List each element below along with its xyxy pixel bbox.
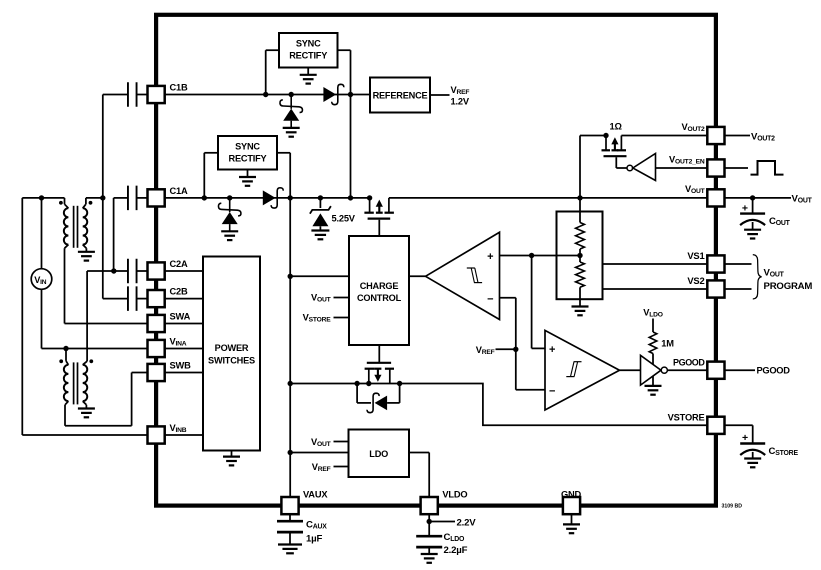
wire VS2 external — [725, 288, 752, 290]
pin VLDO — [421, 497, 438, 514]
sync rectify block 2 — [218, 136, 277, 170]
label VOUT charge-control input — [311, 293, 332, 304]
pin VOUT — [707, 189, 724, 206]
label VOUT ldo input — [311, 437, 332, 448]
ideal diode D2 — [263, 188, 283, 208]
pin GND — [563, 497, 580, 514]
label pin PGOOD ext-int — [673, 357, 705, 367]
svg-text:REFERENCE: REFERENCE — [373, 90, 428, 100]
ground CLDO — [421, 554, 438, 563]
pin C2A — [148, 262, 165, 279]
power MOSFET M3 VOUT2 switch 1ohm — [602, 133, 627, 156]
power MOSFET M1 charge pump — [364, 195, 394, 218]
node LDO input tap — [288, 450, 293, 455]
wire SWA pin to power switches — [164, 323, 204, 325]
node clamp left — [354, 381, 359, 386]
ground POWER SWITCHES — [223, 451, 240, 466]
ground COUT — [744, 230, 761, 239]
svg-text:1M: 1M — [661, 338, 674, 348]
label 1uF — [306, 533, 322, 544]
wire U2 output — [620, 369, 641, 371]
label pin SWB — [170, 361, 192, 371]
label pin GND — [561, 489, 582, 499]
svg-text:C2A: C2A — [170, 259, 188, 269]
capacitor CLDO — [416, 536, 442, 547]
wire SWB pin to power switches — [164, 372, 204, 374]
label CLDO — [444, 532, 466, 543]
wire sync1 left tap — [266, 50, 279, 94]
ground CSTORE — [744, 459, 761, 468]
wire COUT lead — [752, 198, 754, 214]
node VOUT2 branch — [577, 195, 582, 200]
capacitor C2B — [128, 286, 137, 311]
inverter U4 VOUT2 enable — [627, 154, 656, 181]
ground sync rectify 1 — [300, 68, 317, 84]
svg-text:RECTIFY: RECTIFY — [229, 153, 267, 163]
node VREF junction — [513, 347, 518, 352]
wire VOUT ldo stub — [334, 441, 349, 443]
transformer T2 core — [74, 362, 78, 404]
label 5.25V — [332, 214, 356, 224]
label 2.2V — [457, 517, 477, 528]
wire M3 right to VOUT2 pin — [621, 135, 707, 137]
ground T2 secondary — [78, 409, 95, 418]
wire C1A internal row — [164, 197, 370, 199]
capacitor C1B — [128, 82, 137, 107]
label VREF — [476, 345, 495, 356]
resistor R2 divider lower — [576, 262, 585, 287]
svg-text:GND: GND — [561, 489, 582, 499]
resistor 1M pullup — [649, 332, 657, 354]
svg-text:CHARGE: CHARGE — [360, 281, 399, 291]
label pin C2B — [170, 287, 188, 297]
pin VINA — [148, 340, 165, 357]
transformer T1 phase dot secondary — [89, 201, 93, 205]
wire VREF ldo stub — [334, 466, 349, 468]
wire LDO middle input — [290, 452, 348, 454]
node U1 plus crossover tap — [529, 253, 534, 258]
wire VSTORE cc stub — [334, 317, 350, 319]
label CSTORE — [769, 446, 799, 457]
label VOUT PROGRAM — [764, 267, 813, 292]
wire divider bottom — [579, 287, 581, 306]
transformer T2 primary winding — [64, 349, 69, 405]
wire sync2 right tap — [277, 153, 290, 198]
pin VOUT2 — [707, 127, 724, 144]
switch-diode SD2 to ground — [218, 195, 240, 240]
label PGOOD external — [757, 366, 791, 376]
capacitor CSTORE polarized — [740, 444, 765, 456]
wire VS1 external — [725, 263, 752, 265]
transformer T2 phase dot secondary — [89, 359, 93, 363]
node storage row tap — [288, 381, 293, 386]
label VOUT external — [792, 194, 813, 205]
comparator U2 power good — [545, 330, 620, 410]
label 1 ohm — [610, 122, 623, 132]
wire crossover to U2 plus — [532, 256, 545, 349]
svg-text:1µF: 1µF — [306, 533, 322, 544]
svg-text:2.2µF: 2.2µF — [444, 545, 468, 556]
svg-text:C1A: C1A — [170, 186, 188, 196]
label VSTORE charge-control input — [303, 313, 332, 324]
wire COUT to ground — [752, 222, 754, 230]
svg-text:LDO: LDO — [369, 449, 388, 459]
pin PGOOD — [707, 362, 724, 379]
pin VOUT2_EN — [707, 159, 724, 176]
wire CAUX to ground — [289, 532, 291, 544]
label plus CSTORE — [742, 432, 748, 444]
wire REFERENCE output — [430, 94, 450, 96]
resistor R1 divider upper — [576, 223, 585, 250]
block LDO — [349, 430, 410, 478]
node sync1 left tap — [263, 92, 268, 97]
wire vertical C1B/T1sec/C2B net — [102, 95, 104, 299]
wire T2 primary to SWB — [65, 373, 149, 426]
wire sync2 left tap — [204, 153, 218, 198]
svg-text:1Ω: 1Ω — [610, 122, 623, 132]
wire sync1 right tap — [338, 50, 351, 94]
wire VS2 stub — [603, 288, 708, 290]
node rectifier 2 output — [288, 195, 293, 200]
wire VIN to circle top — [41, 198, 43, 269]
node charge control input tap — [288, 274, 293, 279]
pin VS2 — [707, 280, 724, 297]
svg-text:C1B: C1B — [170, 83, 188, 93]
svg-text:RECTIFY: RECTIFY — [289, 51, 327, 61]
label pin C1B — [170, 83, 188, 93]
wire storage row — [290, 384, 707, 426]
inverter U3 PGOOD driver — [641, 355, 668, 385]
wire VINB pin to power switches — [164, 434, 204, 436]
pin C1B — [148, 86, 165, 103]
label VLDO pullup — [643, 308, 663, 319]
svg-text:−: − — [487, 293, 493, 305]
label pin VLDO — [442, 489, 467, 499]
svg-text:VLDO: VLDO — [442, 489, 467, 499]
wire VS1 stub — [603, 263, 708, 265]
wire outer loop to VINB — [22, 198, 148, 435]
label COUT — [769, 216, 791, 227]
svg-text:PGOOD: PGOOD — [673, 357, 705, 367]
label CAUX — [306, 520, 327, 531]
label 1M — [661, 338, 674, 348]
transformer T2 secondary winding — [83, 361, 88, 408]
svg-text:SWB: SWB — [170, 361, 192, 371]
label pin VINB — [170, 423, 187, 434]
wire VOUT2_EN external — [725, 167, 749, 169]
wire VSTORE external — [725, 425, 753, 443]
wire M3 gate — [616, 157, 627, 168]
wire C1B internal row — [164, 94, 371, 96]
block REFERENCE — [370, 78, 430, 113]
svg-text:+: + — [549, 344, 555, 356]
wire C2A row — [87, 270, 148, 272]
svg-text:+: + — [487, 251, 493, 263]
label pin C1A — [170, 186, 188, 196]
transformer T1 phase dot primary — [59, 201, 63, 205]
wire CLDO to ground — [428, 547, 430, 554]
IC body outline (LTC3109) — [156, 15, 716, 506]
ground GND pin — [563, 524, 580, 533]
label 3109 BD — [722, 504, 743, 510]
label pin VS2 — [687, 275, 704, 286]
label pin C2A — [170, 259, 188, 269]
node T2 primary tap — [63, 346, 68, 351]
wire M2 gate from charge control — [378, 345, 380, 362]
pin VSTORE — [707, 417, 724, 434]
wire VIN top rail — [22, 197, 64, 199]
svg-text:SWITCHES: SWITCHES — [208, 356, 255, 366]
label VREF ldo input — [312, 462, 331, 473]
brace VOUT PROGRAM — [753, 255, 762, 299]
wire vertical C2A net to T2 secondary — [86, 271, 88, 361]
svg-text:SWA: SWA — [170, 312, 191, 322]
svg-text:−: − — [549, 385, 555, 397]
block CHARGE CONTROL — [349, 236, 409, 345]
svg-text:2.2V: 2.2V — [457, 517, 477, 528]
label VOUT2 external — [751, 131, 775, 142]
pin VINB — [148, 426, 165, 443]
capacitor C1A — [128, 186, 137, 211]
svg-text:PGOOD: PGOOD — [757, 366, 791, 376]
wire C2A pin to power switches — [164, 270, 204, 272]
node VIN positive tap — [39, 195, 44, 200]
node sync2 left tap — [202, 195, 207, 200]
ideal diode D3 clamp — [357, 384, 400, 413]
label pin VOUT — [685, 184, 706, 195]
sync rectify block 1 — [279, 33, 338, 68]
pin VAUX — [281, 497, 298, 514]
wire 1M to driver — [652, 354, 654, 365]
wire 2.2V stub — [429, 521, 455, 523]
transformer T2 phase dot primary — [59, 359, 63, 363]
wire C1A row cap to pin — [114, 197, 149, 199]
wire C1B row cap to pin — [103, 94, 149, 96]
svg-text:VAUX: VAUX — [303, 489, 328, 499]
label pin VOUT2_EN — [669, 154, 705, 165]
transformer T1 secondary winding — [83, 198, 88, 252]
pin VS1 — [707, 255, 724, 272]
wire charge control output — [409, 275, 426, 277]
node C2A junction — [111, 268, 116, 273]
label pin VINA — [170, 337, 187, 348]
node divider mid tap — [577, 253, 582, 258]
label pin VSTORE — [668, 413, 705, 423]
wire VIN circle bottom to VINA rail — [42, 289, 67, 348]
node COUT tap — [750, 195, 755, 200]
waveform pulse VOUT2_EN — [751, 161, 784, 175]
ground sync rectify 2 — [239, 170, 256, 186]
wire VOUT cc stub — [334, 297, 350, 299]
svg-text:SYNC: SYNC — [235, 141, 260, 151]
wire VREF to comparators — [496, 348, 516, 350]
wire U1 plus input to divider tap — [500, 255, 581, 257]
wire C2B row — [103, 298, 149, 300]
ground CAUX — [278, 545, 302, 554]
label pin VOUT2 — [681, 122, 705, 133]
wire VINA row — [66, 348, 149, 350]
pin SWA — [148, 315, 165, 332]
wire T1 secondary top lead — [86, 197, 103, 199]
wire VOUT rail — [389, 197, 708, 199]
comparator U1 hysteretic — [426, 232, 500, 319]
wire VOUT2 external — [725, 135, 751, 137]
svg-text:PROGRAM: PROGRAM — [764, 281, 813, 292]
svg-text:VSTORE: VSTORE — [668, 413, 705, 423]
label pin VS1 — [687, 250, 704, 261]
svg-text:3109 BD: 3109 BD — [722, 504, 743, 510]
zener diode 5.25V — [310, 198, 331, 230]
svg-text:POWER: POWER — [215, 343, 249, 353]
label 2.2uF — [444, 545, 468, 556]
wire VOUT2_EN to inverter — [656, 167, 708, 169]
wire U1 minus input — [500, 298, 546, 390]
label plus COUT — [742, 202, 748, 214]
pin C1A — [148, 189, 165, 206]
node clamp right — [397, 381, 402, 386]
node vertical-join C1A row — [348, 195, 353, 200]
ideal diode D1 — [323, 84, 343, 104]
ground divider — [572, 307, 589, 316]
wire to charge control input — [290, 275, 349, 277]
capacitor COUT polarized — [740, 214, 765, 226]
label pin SWA — [170, 312, 191, 322]
wire VOUT2 branch up — [580, 136, 606, 198]
wire vertical rect1 out to C1A row — [350, 95, 352, 198]
wire C2B pin to power switches — [164, 298, 204, 300]
wire VINA pin to power switches — [164, 348, 204, 350]
transformer T1 core — [74, 206, 78, 248]
block POWER SWITCHES — [203, 257, 260, 451]
wire CSTORE to ground — [752, 452, 754, 458]
transformer T1 primary winding — [64, 198, 69, 248]
label VREF 1.2V — [451, 85, 470, 106]
pin SWB — [148, 364, 165, 381]
node rectifier 1 output — [348, 92, 353, 97]
switch-diode SD1 to ground — [280, 92, 302, 137]
wire PGOOD external — [725, 369, 756, 371]
svg-text:CONTROL: CONTROL — [357, 293, 402, 303]
ground PGOOD driver — [645, 376, 662, 395]
wire PGOOD to pin — [667, 369, 707, 371]
ground zener — [311, 231, 329, 240]
svg-text:C2B: C2B — [170, 287, 188, 297]
svg-text:5.25V: 5.25V — [332, 214, 356, 224]
wire VAUX rail vertical — [289, 198, 291, 499]
node zener tap — [318, 195, 323, 200]
svg-text:VS2: VS2 — [687, 275, 704, 286]
ground T1 secondary — [78, 252, 95, 261]
node T1 secondary top — [100, 195, 105, 200]
wire vertical C1A-cap to C2A node — [113, 198, 115, 271]
wire divider middle — [579, 249, 581, 262]
wire VOUT external — [725, 197, 792, 199]
wire GND pin to ground — [571, 514, 573, 524]
wire T1 primary to SWA — [65, 248, 149, 323]
wire divider top — [579, 198, 581, 223]
svg-text:1.2V: 1.2V — [451, 96, 470, 106]
node 2.2V tap — [427, 519, 432, 524]
voltage source VIN — [31, 269, 52, 290]
wire LDO output to VLDO pin — [409, 453, 429, 500]
wire VLDO to 1M — [652, 319, 654, 333]
pin C2B — [148, 290, 165, 307]
svg-text:VS1: VS1 — [687, 250, 704, 261]
svg-text:SYNC: SYNC — [296, 39, 321, 49]
label pin VAUX — [303, 489, 328, 499]
capacitor CAUX — [277, 521, 303, 532]
capacitor C2A — [128, 259, 137, 284]
resistor divider box — [557, 212, 603, 300]
power MOSFET M2 storage switch — [365, 363, 394, 386]
wire CAUX lead — [289, 514, 291, 521]
wire M1 gate to charge control — [378, 220, 380, 236]
wire VLDO cap lead — [428, 514, 430, 536]
